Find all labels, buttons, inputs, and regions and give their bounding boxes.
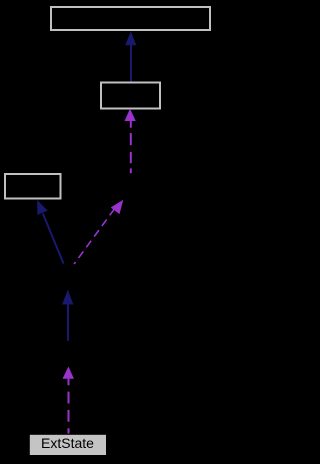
usage arrow hidden-node-to-middle (dashed purple) <box>125 109 136 174</box>
inheritance arrow middle-to-top (solid blue) <box>125 32 136 82</box>
label ExtState <box>0 0 1 1</box>
inheritance arrow junction-to-left-box (solid blue diagonal) <box>37 200 63 264</box>
class box ExtState <box>30 435 106 455</box>
usage arrow junction-to-hidden-node (dashed purple diagonal) <box>74 200 123 264</box>
class box middle <box>101 83 160 109</box>
svg-text:ExtState: ExtState <box>41 435 94 451</box>
class box top <box>51 7 210 30</box>
class box left <box>5 174 61 199</box>
usage arrow ExtState-to-node (dashed purple vertical) <box>63 367 75 434</box>
inheritance arrow vertical (solid blue) <box>62 290 73 341</box>
